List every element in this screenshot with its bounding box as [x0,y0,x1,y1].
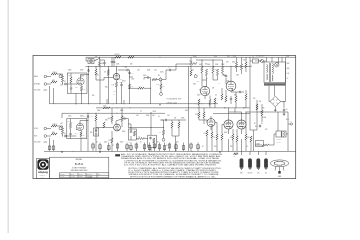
resistor R1 [51,72,58,75]
resistor R26 [198,99,200,105]
svg-text:6L6: 6L6 [224,108,227,110]
svg-text:1500: 1500 [197,81,200,83]
svg-text:0.1: 0.1 [231,89,233,91]
resistor R49 [203,112,205,118]
svg-text:100K: 100K [103,106,106,108]
svg-text:100K: 100K [80,116,83,118]
svg-text:470K: 470K [181,118,184,120]
title sub box [60,173,109,178]
svg-text:820: 820 [83,135,85,137]
svg-text:500K: 500K [147,70,150,72]
svg-text:350V: 350V [122,81,125,83]
svg-text:220K: 220K [68,116,71,118]
wire screen rail [86,65,251,68]
switch SW2 power [250,57,259,63]
switch SW1 [95,56,101,60]
resistor R5 supply [95,66,97,80]
svg-text:100K: 100K [199,64,202,66]
wire drops to tube row [242,151,267,155]
svg-text:220K: 220K [195,114,198,116]
svg-text:1.5K: 1.5K [112,85,115,87]
wire input ch2 [49,126,63,136]
resistor R6 cathode [80,86,85,91]
capacitor C5 coupling [118,67,130,71]
resistor R31 [51,132,57,135]
capacitor C7 tone [128,72,133,75]
svg-text:525V: 525V [260,112,263,114]
svg-text:6SL7: 6SL7 [105,120,108,122]
wire B+ rail [86,56,296,59]
tube V9 power [237,120,246,129]
svg-text:.047: .047 [60,85,63,87]
capacitor C8 treble [145,75,150,79]
node polarity label [34,90,47,92]
svg-text:.005: .005 [131,73,134,75]
capacitor C12 [239,91,242,93]
resistor R57 [250,136,252,142]
svg-text:22K: 22K [247,137,249,139]
wire PI wiring [191,56,246,108]
title line1 [72,167,86,170]
wire ch2 mid rail [62,113,165,118]
transformer T1 primary [267,65,268,81]
resistor R30 [51,124,58,127]
svg-text:+: + [185,148,186,150]
svg-text:20: 20 [112,145,114,147]
wire V2 plate [115,66,118,74]
wire B+ drop right [250,57,257,151]
svg-text:250K: 250K [160,72,163,74]
resistor R48 [195,112,200,118]
svg-text:ampeg: ampeg [38,170,48,174]
svg-text:22K: 22K [205,93,208,95]
capacitor C20 [259,125,261,128]
wire output stage [196,107,251,151]
resistor R10 dropping [128,56,134,58]
capacitor C14 [64,133,68,137]
resistor R32 [61,128,63,134]
svg-text:470: 470 [230,137,232,139]
wire V4 plate feed [87,113,89,152]
tube 6V6 drawing [256,158,260,174]
tube V4 enclosure [67,119,87,139]
svg-text:.047: .047 [60,123,63,125]
svg-text:2.2K: 2.2K [114,91,117,93]
node ch2 label [34,142,47,144]
svg-text:250K: 250K [116,64,119,66]
svg-text:.001: .001 [152,115,155,117]
lamp PL1 pilot [88,59,94,64]
resistor R61 thermistor [234,153,239,159]
svg-text:40: 40 [254,123,256,125]
svg-text:MODEL: MODEL [76,159,82,161]
svg-text:1M: 1M [104,72,106,74]
svg-text:47K: 47K [91,116,93,118]
svg-text:160V: 160V [83,137,86,139]
resistor R52 [214,134,219,140]
svg-text:20: 20 [128,145,130,147]
svg-text:6SL7: 6SL7 [240,172,243,174]
svg-text:.047: .047 [167,115,170,117]
svg-text:NONE: NONE [79,176,83,178]
resistor R56 [245,134,250,140]
transformer T1 leads [256,54,282,63]
resistor R37 [103,106,110,109]
resistor R29 [225,96,227,102]
resistor R45 vol ch2 [159,128,165,142]
resistor R41 cathode [108,138,113,143]
title model label [76,159,82,161]
svg-text:0.5: 0.5 [215,95,217,97]
svg-text:470: 470 [226,62,229,64]
svg-text:470: 470 [243,60,246,62]
tube 6SL7 drawing [240,158,244,174]
tube V2A [113,73,119,79]
svg-text:220K: 220K [97,110,100,112]
resistor R24e [245,62,247,68]
capacitor C15 coupling [121,116,126,120]
svg-text:B-15-N: B-15-N [75,162,83,166]
component value labels [49,56,289,148]
capacitor C4 filter [111,57,113,67]
svg-text:6L6: 6L6 [243,108,246,110]
svg-text:DWN BY: DWN BY [60,174,65,176]
svg-text:470K: 470K [153,111,156,113]
svg-text:0.5: 0.5 [218,83,220,85]
resistor R24c [235,62,237,68]
svg-text:380V: 380V [287,68,290,70]
tone box ch2 B [148,135,157,147]
wire V2 grid return [99,66,102,104]
resistor R17 tone [152,78,157,80]
svg-text:1500: 1500 [226,81,229,83]
potentiometer VR6 [59,74,62,78]
wire V2 grid [96,78,113,81]
transformer T1 secondary LV [272,75,273,81]
tube 6SL7 drawing 2 [248,158,253,174]
wire bridge out [274,57,286,111]
box coupling ch2 [94,128,99,141]
svg-text:350V: 350V [120,79,123,81]
svg-text:OUTPUT: OUTPUT [277,139,282,141]
potentiometer VR7 [59,126,62,130]
resistor R38 plate [108,116,114,122]
svg-text:100K: 100K [139,86,142,88]
svg-text:385V: 385V [193,56,196,58]
wire input ch1 [49,74,63,84]
svg-text:47K: 47K [143,75,146,77]
svg-text:.02: .02 [168,67,170,69]
resistor R21 plate [201,67,203,74]
wire V1 plate feed [87,66,89,104]
resistor R20 [189,61,197,65]
title line2 [71,169,89,172]
svg-text:10K: 10K [130,64,133,66]
resistor R46 [171,120,173,128]
capacitor C12b [230,96,232,104]
svg-text:68K: 68K [52,80,55,82]
svg-text:10K: 10K [101,63,104,65]
svg-text:1-12-65: 1-12-65 [71,176,75,178]
wire top-left feeds [86,57,105,62]
svg-text:20: 20 [96,142,98,144]
svg-text:6SL7: 6SL7 [75,132,78,134]
speaker SP1 jack [288,121,293,126]
resistor R33 [68,121,72,129]
svg-text:.05: .05 [83,116,85,118]
svg-text:+: + [161,147,162,149]
svg-text:225V: 225V [197,95,200,97]
svg-text:6SL7GT: 6SL7GT [248,172,253,174]
svg-text:LINDEN, N. J.: LINDEN, N. J. [39,174,47,176]
logo ampeg mark [37,159,48,170]
svg-text:REV: REV [98,174,101,176]
wire ch2 out [161,120,164,128]
svg-text:+: + [151,148,152,150]
tone box ch2 A [128,128,136,144]
svg-text:CH: CH [129,142,131,144]
svg-text:6L6: 6L6 [257,172,259,174]
svg-text:220K: 220K [221,64,224,66]
resistor R39 plate [121,116,123,122]
svg-text:50V: 50V [148,145,151,147]
svg-text:220K: 220K [68,70,71,72]
text V2 voltages [114,79,123,96]
svg-text:SLO-BLO: SLO-BLO [255,61,262,63]
svg-text:160V: 160V [122,131,125,133]
svg-text:.022: .022 [125,67,128,69]
svg-text:56K: 56K [138,136,140,138]
wire V3B plate [230,66,233,81]
svg-text:+: + [199,147,200,149]
svg-text:GROUND: GROUND [34,142,40,144]
svg-text:6.3V: 6.3V [287,73,290,75]
svg-text:+: + [171,146,172,148]
title block box [50,157,109,178]
transformer T1 secondary HV [272,64,273,74]
svg-text:OF NO 0123: OF NO 0123 [167,102,177,104]
svg-text:.022: .022 [121,116,124,118]
svg-text:100K: 100K [120,110,123,112]
wire ground rail ch1 [50,99,219,105]
capacitor C3b filter [113,57,116,66]
svg-text:GROUND: GROUND [34,90,40,92]
svg-text:470: 470 [253,98,256,100]
resistor R59 [261,104,263,122]
tube V8 power [224,120,233,129]
svg-text:25: 25 [166,145,168,147]
capacitor C1 [64,81,68,85]
svg-text:450V: 450V [104,142,107,144]
wire PI feed [176,64,190,70]
capacitor bank filters [92,143,201,152]
svg-text:22K 2W: 22K 2W [115,54,121,56]
svg-text:+: + [128,147,129,149]
resistor R25 [190,70,192,76]
capacitor C3 filter [103,62,105,67]
tube V7 driver [207,119,215,127]
resistor R24b plate [221,67,223,74]
svg-text:250: 250 [214,146,217,148]
resistor R51 grid [211,132,213,138]
svg-text:6SL7: 6SL7 [193,84,196,86]
wire jack drop ch2 [48,138,55,151]
resistor R55 screen [236,136,238,142]
title sub text [60,173,100,179]
svg-text:10K: 10K [199,90,202,92]
note PI mounting [167,99,183,105]
svg-text:260V: 260V [185,110,188,112]
svg-text:820: 820 [90,132,93,134]
svg-text:820: 820 [83,89,85,91]
svg-text:820: 820 [92,95,95,97]
wire ch2 tone riser [136,112,151,151]
svg-text:+: + [110,148,111,150]
rectifier tube V6 [275,63,279,67]
svg-text:10: 10 [157,142,159,144]
scan edge artifact [8,0,9,233]
fuse F1 [259,60,266,63]
wire tone out riser [162,70,166,80]
title model number [75,162,83,166]
svg-text:355V: 355V [222,75,225,77]
resistor R3 [61,76,63,82]
svg-text:220K: 220K [68,121,71,123]
resistor R8 [98,62,103,67]
svg-text:6.8K: 6.8K [236,75,239,77]
resistor R34 supply [83,113,97,151]
svg-text:450V: 450V [120,142,123,144]
tube V3B [226,81,236,91]
svg-text:TREB: TREB [156,84,160,86]
resistor R42 mid [138,136,145,139]
svg-text:68K: 68K [52,132,55,134]
svg-text:425V: 425V [232,62,235,64]
svg-text:100K: 100K [200,68,203,70]
resistor R16 tone [128,84,133,89]
svg-text:500K: 500K [146,115,149,117]
svg-text:425V: 425V [224,132,227,134]
wire OT [246,112,288,151]
svg-text:10: 10 [140,142,142,144]
svg-text:+: + [138,146,139,148]
svg-text:170V: 170V [131,79,134,81]
svg-text:0.1: 0.1 [140,111,142,113]
resistor R54 screen [230,134,234,140]
svg-text:DWG NO: DWG NO [87,174,92,176]
capacitor C13 main filter [283,109,288,116]
resistor R29b [214,98,216,108]
svg-text:5V: 5V [287,78,289,80]
svg-text:.02: .02 [64,81,66,83]
capacitor C2 cathode [70,87,72,90]
svg-text:.047: .047 [137,70,140,72]
svg-text:1.5K: 1.5K [108,140,111,142]
tube 6V6 drawing 2 [264,158,268,174]
svg-text:OPS: OPS [233,56,236,58]
svg-text:270K: 270K [189,61,192,63]
svg-text:115V: 115V [286,56,289,58]
svg-text:SPK: SPK [290,121,293,123]
resistor R15 cathode [112,80,118,104]
svg-text:P.I. MOUNTS TOP: P.I. MOUNTS TOP [167,99,183,101]
svg-text:50: 50 [202,146,204,148]
capacitor C14b [69,133,71,136]
svg-text:0.1: 0.1 [158,116,160,118]
capacitor C11 [225,75,228,77]
resistor R28 [221,94,223,100]
capacitor C10 coupling [166,67,176,71]
logo box [37,158,50,178]
resistor R50 grid [204,130,209,136]
svg-text:6L6: 6L6 [265,172,267,174]
transformer T2 output [276,131,286,143]
resistor R53 [221,134,223,140]
diode bridge CR1 [270,96,284,107]
node input jack J3 [34,127,49,130]
text HV labels [287,63,290,80]
resistor R29c [235,92,237,108]
svg-text:100K: 100K [80,70,83,72]
svg-text:0.1: 0.1 [192,70,194,72]
wire PI jogs [197,78,221,85]
svg-text:8-16: 8-16 [286,119,289,121]
resistor R58 [256,104,258,110]
wire tone mid [130,78,160,104]
resistor R23 plate [212,67,214,74]
svg-text:VOL: VOL [162,86,165,88]
resistor R24 plate [216,69,218,76]
resistor R35 cathode [80,132,85,137]
svg-text:100K: 100K [207,64,210,66]
wire PI boundary [187,66,189,151]
wire ch2 tone rail [128,124,164,128]
svg-text:425V: 425V [214,56,217,58]
tube V3A [200,86,209,95]
resistor R24d [240,64,242,70]
svg-text:470: 470 [204,133,206,135]
svg-text:6SL7: 6SL7 [105,87,108,89]
svg-text:CHK BY: CHK BY [60,176,64,178]
resistor R60 feedback [255,134,276,146]
tube V1 enclosure [67,73,87,93]
box bias [256,141,264,147]
wire tone input riser [129,70,133,104]
svg-text:56K: 56K [234,95,237,97]
svg-text:CR: CR [234,156,236,158]
notes text block [115,153,223,178]
svg-text:25V: 25V [176,142,179,144]
node input jack J1 [34,75,49,78]
wire transformer to bridge [269,86,275,102]
svg-text:47K: 47K [131,86,133,88]
svg-text:6SL7: 6SL7 [75,87,78,89]
potentiometer VR5 hum [194,74,197,78]
resistor R9 dropping [115,54,122,58]
svg-text:.001: .001 [154,70,157,72]
svg-text:47K: 47K [96,75,99,77]
resistor R2 [51,80,57,83]
svg-text:.02: .02 [64,133,66,135]
resistor R19 vol [160,80,166,96]
resistor R4 plate [68,75,72,83]
transformer T1 core [270,63,271,82]
svg-text:220K: 220K [215,64,218,66]
tube socket view [270,160,288,178]
resistor R13 grid return [104,66,109,104]
svg-text:40: 40 [255,126,257,128]
transformer T1 box [264,62,286,83]
